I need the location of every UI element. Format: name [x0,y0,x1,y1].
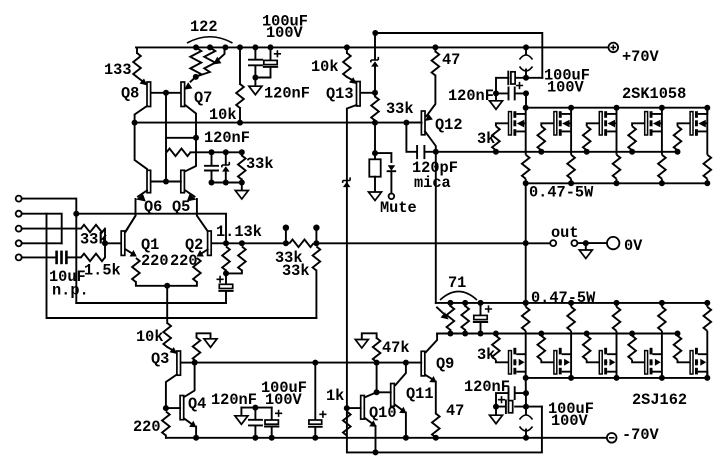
transistor Q10 emitter arrow [366,419,372,424]
node 120nF left / ground [493,90,499,96]
node top link to diode D1 [372,30,378,36]
node bottom amp-side supply top [523,390,529,396]
node mirror base [163,90,169,96]
transistor Q6 base bar [147,170,151,192]
node trim top B [462,300,468,306]
node gate drive [433,149,439,155]
wire bottom source bus [524,302,707,304]
wire out B to 0V [577,242,606,244]
node zener top [223,149,229,155]
svg-text:Q4: Q4 [188,395,206,413]
wire 122 to Q7 emitter [191,77,196,82]
svg-text:Q9: Q9 [436,355,454,373]
wire +70V supply rail [136,46,608,48]
node Q10 emitter / bias line [373,449,379,455]
resistor 33k feedback (horizontal) [290,240,314,248]
node 120nF right [523,90,529,96]
capacitor 100uF 100V (top rail) [496,78,526,94]
wire Q13 collector top link [375,33,542,78]
svg-text:Q8: Q8 [121,85,139,103]
node -70V rail [523,435,529,441]
wire top source bus [526,182,708,184]
wire ground line A [76,302,226,304]
node 47 bottom [433,435,439,441]
node trim bottom B [462,331,468,337]
wire bottom drain bus [526,372,708,378]
svg-text:Q7: Q7 [194,89,212,107]
svg-text:120nF: 120nF [464,378,510,396]
wire Q12 collector [425,131,436,152]
svg-text:33k: 33k [246,155,274,173]
power connector (top, +70V link) [525,47,527,77]
trimmer 122 zigzag B (diagonal) [196,47,216,76]
terminal mute [389,194,395,200]
wire pin1 [22,199,77,303]
wire mirror-base to cascode-base column [165,93,167,182]
svg-text:122: 122 [190,18,218,36]
node out column / bottom source bus [523,300,529,306]
node rail bypass cap bottom [312,435,318,441]
node rail 225 [222,44,228,50]
ground (top rail caps) [495,93,497,100]
svg-text:Q3: Q3 [151,350,169,368]
wire Q6 emitter to Q1 collector [126,199,136,232]
wire link row to Q7 collector [166,137,196,139]
transistor Q11 emitter arrow [396,405,402,410]
bottom MOSFET bank [477,300,711,381]
MOSFET M3 2SK1058 with gate resistor and resistor 0.47-5W [583,105,620,187]
capacitor 10uF n.p. input [55,251,58,265]
node out ground [583,240,589,246]
node 122 bottom [193,74,199,80]
arc label 122 [187,37,233,43]
wire Q12 base [406,122,421,124]
zener diode (bias chain) [343,182,351,187]
node rail 196 [193,44,199,50]
wire to top drain bus [525,93,527,107]
trimmer 71 rail [436,302,524,304]
svg-text:3k: 3k [477,346,495,364]
node 120nF bottom [252,435,258,441]
svg-text:Q11: Q11 [406,385,434,403]
node bottom caps left [493,404,499,410]
svg-text:100V: 100V [551,412,589,430]
node Q7 collector [193,135,199,141]
trimmer 71 zigzag B [461,306,469,330]
MOSFET M7 2SJ162 with gate resistor and resistor 0.47-5W [538,300,575,381]
wire Q11 base [377,391,391,393]
node rail 347 [344,44,350,50]
resistor Q3 base to ground hook [193,338,201,362]
connector pin 1 [16,196,22,202]
svg-text:mica: mica [414,174,451,192]
svg-text:3k: 3k [477,130,495,148]
wire Q5/Q6 base link [152,181,181,183]
node trim top A [447,300,453,306]
svg-text:100V: 100V [547,79,585,97]
svg-text:100V: 100V [265,391,303,409]
node 100uF bottom [269,435,275,441]
transistor Q3 base bar [177,351,181,375]
ground (47k hook) [362,333,377,339]
capacitor 100uF 100V (neg rail) [271,408,273,420]
trimmer 71 wiper arrow [437,308,443,314]
node rail 240 [237,44,243,50]
svg-text:Q10: Q10 [369,404,397,422]
capacitor 120nF (bottom rail) [496,387,526,406]
resistor 33k (cascode bias) [238,156,246,180]
wire VAS output column [435,152,437,303]
svg-text:33k: 33k [386,100,414,118]
transistor Q3 emitter arrow / 10k [163,323,171,347]
connector pin 3 [16,226,22,232]
transistor Q9 base bar [421,351,425,376]
resistor 33k feedback (vertical) [313,247,321,271]
node trim bottom A [447,331,453,337]
wire source bus to out rail [525,183,527,303]
ground (mute) [369,192,382,201]
svg-text:0.47-5W: 0.47-5W [531,289,596,307]
svg-text:10k: 10k [311,58,339,76]
svg-text:0V: 0V [624,237,643,255]
ground (front-end caps) [254,78,256,87]
node rail 210 [207,44,213,50]
wire top drain bus [526,108,708,114]
svg-text:120nF: 120nF [264,85,310,103]
trimmer 122 zigzag A [190,47,201,76]
svg-text:220: 220 [133,418,161,436]
node 33k top [239,149,245,155]
wire Q1 base [105,242,121,244]
diode (mute) [375,153,391,193]
wire pin2 [22,214,62,244]
node Q1 base [102,240,108,246]
node rail 255 [252,44,258,50]
transistor Q13 emitter arrow [349,77,357,84]
node Q3 base [192,360,198,366]
node Q13 base [372,90,378,96]
node rail left end [132,120,138,126]
wire pin5 to input cap [22,256,55,258]
trimmer 71 zigzag A [447,306,455,330]
wire bottom gate rail [437,333,678,335]
terminal out B [571,240,577,246]
wire bottom bus to caps [525,378,527,407]
transistor Q11 base bar [391,384,395,407]
svg-text:+70V: +70V [622,48,660,66]
node feedback / Q2 base [223,240,229,246]
capacitor 120nF (front-end decoupling) [249,47,262,77]
resistor 1.5k (input series) [81,254,105,262]
node cap top [478,300,484,306]
svg-text:2SK1058: 2SK1058 [622,85,686,103]
wire Q4 collector [185,363,195,397]
MOSFET M1 2SK1058 with resistor 3k and resistor 0.47-5W [492,105,529,187]
wire Q3 collector [166,375,177,409]
power connector (bottom, -70V link) [525,407,527,438]
transistor Q4 base bar [180,396,184,420]
svg-text:-70V: -70V [622,426,660,444]
node 47k / rail [374,360,380,366]
node bias bottom right [239,180,245,186]
svg-text:220: 220 [170,252,198,270]
connector pin 5 [16,254,22,260]
stub node A above rail [285,228,287,244]
svg-text:n.p.: n.p. [52,282,89,300]
resistor cascode bias (horizontal) [167,149,191,157]
MOSFET M4 2SK1058 with gate resistor and resistor 0.47-5W [628,105,665,187]
node 1.13k bottom [223,270,229,276]
wire Q3 base [182,362,195,364]
transistor Q9 collector [426,334,437,353]
stub node B above rail [315,228,317,244]
resistor 47 (Q9 emitter) [435,382,437,414]
transistor Q1 emitter arrow [126,250,133,255]
transistor Q4 emitter arrow [185,419,191,424]
svg-text:71: 71 [448,274,466,292]
node 1.13k top B [239,240,245,246]
MOSFET M6 2SJ162 with resistor 3k and resistor 0.47-5W [492,300,529,381]
node rail 435 [432,44,438,50]
resistor 33k (input shunt) [81,225,105,233]
wire bias rail (Q12/Q13 base bias) [135,122,422,124]
MOSFET M5 2SK1058 with gate resistor and resistor 0.47-5W [674,105,711,187]
svg-text:100V: 100V [266,24,304,42]
transistor Q9 emitter arrow [426,375,432,379]
transistor Q2 base bar [208,231,212,255]
wire Q9 base rail [195,362,422,364]
arc label 71 [440,292,477,301]
ground (cascode bias) [241,183,243,191]
capacitor feedback electrolytic [225,273,227,284]
svg-text:120nF: 120nF [204,129,250,147]
zener diode (cascode bias) [225,152,227,182]
zener diode (Q13 base clamp) [374,33,376,93]
resistor 220 (Q2 emitter) [193,258,201,282]
svg-text:1k: 1k [326,387,344,405]
transistor Q6 emitter arrow [136,194,146,202]
wire out rail (Q2 base to output) [226,242,550,244]
transistor Q1 base bar [121,231,125,255]
node cap bottom [478,331,484,337]
svg-text:47: 47 [442,51,460,69]
svg-text:47k: 47k [382,339,410,357]
top MOSFET bank [477,105,711,187]
svg-text:Q13: Q13 [326,85,354,103]
capacitor bias electrolytic [480,303,482,315]
node bottom supply [523,404,529,410]
node Q4 emitter [193,435,199,441]
wire input cap to 1.5k [68,256,81,258]
wire negative rail [166,437,607,439]
resistor 33k (Q13 base) [374,93,376,97]
node rail bypass cap [312,360,318,366]
wire pin4 [22,242,62,244]
svg-text:10k: 10k [136,328,164,346]
capacitor 120nF (top rail) [496,88,526,100]
capacitor 120nF (neg rail) [241,408,271,438]
resistor 133 [133,53,141,77]
transistor Q7 emitter arrow [184,82,192,90]
node Q4 base [163,405,169,411]
node top amp-side supply [523,75,529,81]
wire Q10 base [347,407,361,409]
transistor Q2 emitter arrow [201,250,208,255]
wire Q8/Q6 collector column [135,106,147,169]
MOSFET M8 2SJ162 with gate resistor and resistor 0.47-5W [583,300,620,381]
capacitor 120nF (cascode bias) [205,152,218,182]
wire tail current source [166,286,168,323]
svg-text:10k: 10k [209,106,237,124]
transistor Q5 base bar [181,170,185,192]
wire pin3 [22,228,81,230]
svg-text:33k: 33k [282,262,310,280]
capacitor rail bypass electrolytic [314,363,316,420]
node caps junction [252,75,258,81]
node pin1/feed junction [73,211,79,217]
node cascode base [163,179,169,185]
node Q12 base [403,120,409,126]
node Q10 base / 1k [344,405,350,411]
transistor Q8 (PNP mirror) emitter arrow [140,79,148,86]
wire supply node to link [526,77,542,79]
resistor 220 (Q4) [162,412,170,436]
capacitor 120pF mica [406,123,435,152]
connector pin 4 [16,240,22,246]
wire Q2 base [212,242,226,244]
transistor Q10 base bar [361,396,365,420]
wire top gate rail [436,151,678,153]
wire Q11 collector [396,363,406,385]
node Q11 base [374,389,380,395]
svg-text:120nF: 120nF [211,391,257,409]
wire Q7-C / Q5-C column [186,106,196,172]
resistor 1.13k A [222,247,230,271]
trimmer 122 wiper arrow [219,47,225,59]
svg-text:Q12: Q12 [435,116,463,134]
MOSFET M9 2SJ162 with gate resistor and resistor 0.47-5W [628,300,665,381]
resistor 1k [343,412,351,436]
node rail 270 [268,44,274,50]
transistor Q12 base bar [421,111,425,135]
resistor 10k (mirror load) [239,47,241,84]
terminal 0V [607,237,619,249]
transistor Q13 base bar [357,82,361,107]
node Q11 emitter [403,435,409,441]
node tail [164,283,170,289]
transistor Q12 emitter arrow [425,114,433,121]
terminal +70V [609,43,619,53]
resistor 47k [373,338,381,362]
svg-text:0.47-5W: 0.47-5W [529,184,594,202]
node 120nF cascode top [209,149,215,155]
svg-text:2SJ162: 2SJ162 [632,391,687,409]
node 33k bottom [372,120,378,126]
resistor 220 (Q1 emitter) [132,258,140,282]
resistor 10k (Q13 emitter) [346,47,348,53]
resistor 47 (Q12 emitter) [434,47,436,51]
svg-text:1.13k: 1.13k [216,223,262,241]
svg-text:120nF: 120nF [448,87,494,105]
node Q10 collector / Q11 base rail [403,360,409,366]
wire Q8-Q7 base link [152,92,181,94]
MOSFET M10 2SJ162 with gate resistor and resistor 0.47-5W [674,300,711,381]
capacitor 100uF 100V (bottom rail) [496,400,526,413]
node bias bottom left [209,180,215,186]
transistor Q8 base bar [147,82,151,107]
svg-text:220: 220 [141,252,169,270]
transistor Q1 collector [126,216,136,232]
resistor 1.13k B [238,247,246,271]
transistor Q5 emitter arrow [187,194,197,202]
svg-text:133: 133 [104,61,132,79]
wire Q10 collector [366,392,377,397]
capacitor 100uF 100V electrolytic [255,47,270,77]
terminal -70V [607,433,617,443]
wire bottom supply to bias line [526,406,542,408]
node bias bottom mid [223,180,229,186]
ground (bottom rail caps) [495,407,497,416]
wire Q13 base [361,92,375,94]
wire Q4 base [166,407,180,409]
svg-text:Mute: Mute [380,199,417,217]
node neg caps [252,405,258,411]
wire Q5 emitter to Q2 collector [197,199,208,232]
node mute [372,150,378,156]
wire cascode bias bottom row [212,182,242,184]
mute relay coil [374,153,376,159]
terminal out A [550,240,556,246]
wire ground line B [47,214,317,318]
node 10k bottom [237,120,243,126]
svg-text:47: 47 [446,402,464,420]
node source bus / out rail [523,240,529,246]
transistor Q7 base bar [181,82,185,107]
MOSFET M2 2SK1058 with gate resistor and resistor 0.47-5W [538,105,575,187]
ground (output) [585,243,587,250]
wire Q13 collector [347,105,542,452]
wire feedback input feed [76,214,226,244]
ground (neg rail caps) [240,408,242,416]
wire mute feed [374,123,376,154]
svg-text:1.5k: 1.5k [84,262,121,280]
connector pin 2 [16,211,22,217]
